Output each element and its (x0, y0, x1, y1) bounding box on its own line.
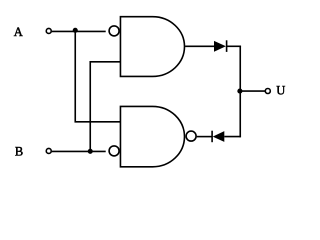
gate U2 output bubble (186, 131, 196, 141)
diode D2 anode-left triangle (213, 131, 225, 142)
terminal U (265, 89, 270, 94)
wire junction to terminal U (240, 90, 265, 92)
wire D1 cathode to output vertical (227, 45, 241, 47)
wire U1 output to diode D1 (185, 45, 214, 47)
svg-text:A: A (14, 25, 23, 39)
terminal B (46, 148, 51, 153)
gate U2 input bubble (109, 146, 119, 156)
wire A terminal to U1 input bubble (52, 30, 106, 32)
diode D2 cathode bar (211, 131, 213, 143)
wire U2 output bubble to diode D2 (197, 136, 212, 138)
junction on A wire (73, 28, 78, 33)
gate U1 input bubble (109, 26, 119, 36)
svg-text:U: U (276, 84, 285, 98)
wire U1 lower input from B line (90, 62, 120, 152)
gate U2 body (AND shape) (120, 106, 184, 166)
junction node U (237, 89, 242, 94)
diode D1 cathode bar (226, 40, 228, 52)
terminal A (46, 28, 51, 33)
diode D1 anode-right triangle (214, 41, 226, 52)
wire D2 anode to output vertical (224, 136, 240, 138)
wire A junction down to U2 upper input (75, 31, 120, 121)
svg-text:B: B (15, 144, 23, 158)
gate U1 body (AND shape) (120, 17, 184, 77)
junction on B wire (88, 149, 93, 154)
wire B terminal to U2 input bubble (52, 150, 106, 152)
corner joint bottom (239, 136, 241, 138)
corner joint top (239, 46, 241, 48)
wire output vertical (239, 46, 241, 136)
